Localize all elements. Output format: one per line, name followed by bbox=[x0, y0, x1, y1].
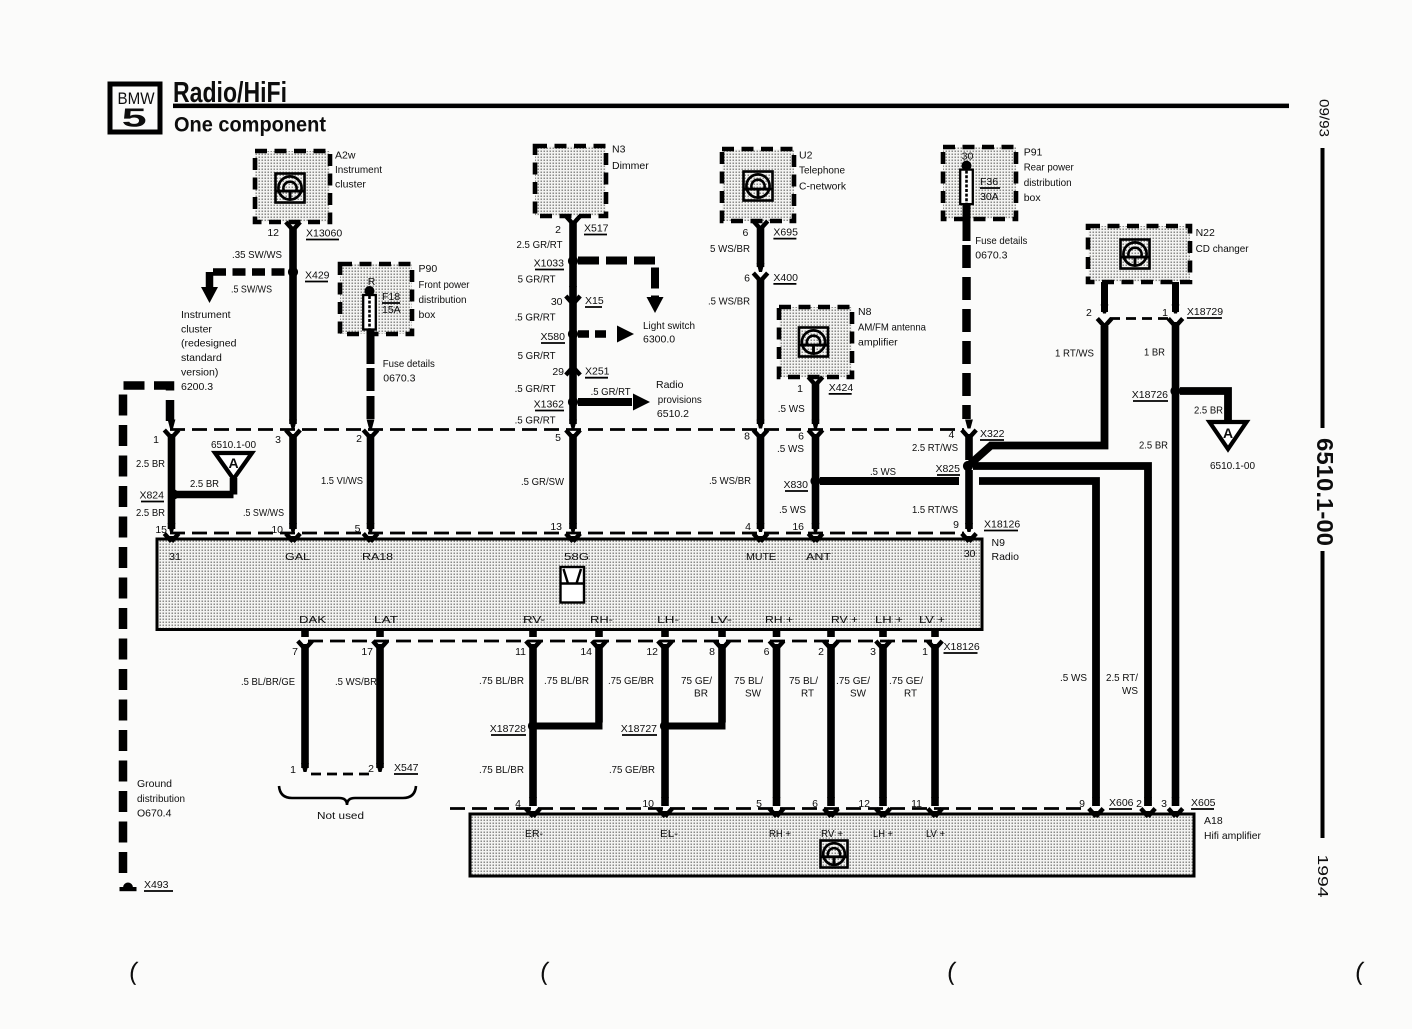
svg-text:X424: X424 bbox=[829, 382, 854, 394]
svg-text:12: 12 bbox=[267, 227, 279, 239]
svg-text:.5 BL/BR/GE: .5 BL/BR/GE bbox=[241, 676, 295, 688]
svg-text:6: 6 bbox=[744, 273, 750, 285]
svg-text:1 BR: 1 BR bbox=[1144, 347, 1165, 359]
svg-text:11: 11 bbox=[515, 646, 526, 658]
svg-text:5 GR/RT: 5 GR/RT bbox=[518, 350, 557, 362]
svg-text:X605: X605 bbox=[1191, 797, 1216, 809]
svg-text:0670.3: 0670.3 bbox=[975, 250, 1007, 262]
svg-text:.5 WS: .5 WS bbox=[779, 504, 806, 516]
svg-text:A: A bbox=[228, 455, 238, 471]
svg-text:SW: SW bbox=[745, 688, 761, 700]
svg-text:5 GR/RT: 5 GR/RT bbox=[518, 274, 557, 286]
svg-text:8: 8 bbox=[744, 430, 750, 442]
svg-text:75 GE/: 75 GE/ bbox=[681, 675, 712, 687]
svg-text:version): version) bbox=[181, 366, 218, 378]
svg-text:6: 6 bbox=[743, 227, 749, 239]
svg-text:Ground: Ground bbox=[137, 778, 172, 790]
svg-text:5: 5 bbox=[122, 103, 147, 132]
svg-text:.5 WS: .5 WS bbox=[777, 443, 804, 455]
svg-text:2.5 BR: 2.5 BR bbox=[190, 478, 219, 490]
svg-text:X18727: X18727 bbox=[621, 723, 657, 735]
svg-text:12: 12 bbox=[646, 646, 658, 658]
svg-text:N8: N8 bbox=[858, 306, 872, 318]
svg-text:2.5 BR: 2.5 BR bbox=[136, 458, 165, 470]
svg-text:P91: P91 bbox=[1024, 147, 1043, 159]
svg-text:cluster: cluster bbox=[181, 323, 212, 335]
svg-text:.35 SW/WS: .35 SW/WS bbox=[232, 249, 282, 261]
svg-text:X1033: X1033 bbox=[534, 258, 565, 270]
svg-text:CD changer: CD changer bbox=[1196, 243, 1249, 255]
svg-text:9: 9 bbox=[953, 519, 959, 531]
svg-text:.5 WS: .5 WS bbox=[870, 466, 896, 478]
svg-text:16: 16 bbox=[792, 521, 804, 533]
svg-text:13: 13 bbox=[550, 521, 562, 533]
svg-text:One component: One component bbox=[174, 113, 326, 137]
svg-text:X18728: X18728 bbox=[490, 723, 526, 735]
svg-text:10: 10 bbox=[642, 798, 654, 810]
svg-text:LV-: LV- bbox=[710, 614, 733, 626]
svg-text:Front power: Front power bbox=[419, 279, 470, 291]
svg-text:Fuse details: Fuse details bbox=[975, 235, 1027, 247]
svg-text:.75 GE/BR: .75 GE/BR bbox=[608, 675, 654, 687]
svg-text:.5 WS/BR: .5 WS/BR bbox=[709, 475, 751, 487]
svg-text:1 RT/WS: 1 RT/WS bbox=[1055, 348, 1094, 360]
svg-text:75 BL/: 75 BL/ bbox=[789, 675, 818, 687]
svg-text:X429: X429 bbox=[305, 270, 330, 282]
svg-text:6510.1-00: 6510.1-00 bbox=[1312, 438, 1338, 546]
svg-text:amplifier: amplifier bbox=[858, 337, 898, 349]
svg-text:AM/FM antenna: AM/FM antenna bbox=[858, 322, 926, 334]
svg-text:.5 GR/RT: .5 GR/RT bbox=[591, 386, 632, 398]
svg-text:1994: 1994 bbox=[1314, 855, 1331, 898]
svg-text:2: 2 bbox=[1086, 307, 1092, 319]
svg-text:(redesigned: (redesigned bbox=[181, 338, 237, 350]
svg-text:A: A bbox=[1223, 425, 1233, 441]
svg-text:X251: X251 bbox=[585, 366, 610, 378]
svg-text:8: 8 bbox=[709, 646, 715, 658]
svg-text:LH +: LH + bbox=[875, 614, 903, 626]
svg-text:X18729: X18729 bbox=[1187, 306, 1223, 318]
svg-text:standard: standard bbox=[181, 352, 222, 364]
svg-text:12: 12 bbox=[858, 798, 870, 810]
svg-text:.75 BL/BR: .75 BL/BR bbox=[479, 764, 524, 776]
svg-text:31: 31 bbox=[169, 551, 181, 563]
svg-text:15A: 15A bbox=[382, 304, 401, 316]
svg-text:Fuse details: Fuse details bbox=[383, 358, 435, 370]
svg-text:RT: RT bbox=[801, 688, 815, 700]
svg-text:5: 5 bbox=[355, 523, 361, 535]
svg-text:distribution: distribution bbox=[137, 793, 185, 805]
svg-text:30: 30 bbox=[962, 151, 974, 163]
svg-text:4: 4 bbox=[745, 521, 751, 533]
svg-text:X322: X322 bbox=[980, 428, 1005, 440]
svg-text:EL-: EL- bbox=[660, 828, 679, 840]
svg-text:distribution: distribution bbox=[419, 294, 467, 306]
svg-text:.5 SW/WS: .5 SW/WS bbox=[231, 284, 272, 296]
svg-text:.75 GE/: .75 GE/ bbox=[836, 675, 870, 687]
svg-text:RV +: RV + bbox=[831, 614, 858, 626]
svg-text:.5 GR/RT: .5 GR/RT bbox=[515, 415, 557, 427]
svg-text:2.5 BR: 2.5 BR bbox=[1139, 440, 1168, 452]
svg-text:2: 2 bbox=[368, 763, 374, 775]
svg-text:.75 GE/BR: .75 GE/BR bbox=[609, 764, 655, 776]
svg-text:2.5 GR/RT: 2.5 GR/RT bbox=[517, 239, 564, 251]
svg-text:2: 2 bbox=[356, 433, 362, 445]
svg-text:2: 2 bbox=[555, 224, 561, 236]
svg-text:P90: P90 bbox=[419, 263, 438, 275]
svg-text:A18: A18 bbox=[1204, 815, 1223, 827]
svg-text:X825: X825 bbox=[935, 463, 960, 475]
svg-text:5 WS/BR: 5 WS/BR bbox=[710, 243, 750, 255]
svg-text:1.5 VI/WS: 1.5 VI/WS bbox=[321, 475, 363, 487]
svg-text:X493: X493 bbox=[144, 879, 169, 891]
svg-text:Radio: Radio bbox=[992, 551, 1020, 563]
svg-text:LH +: LH + bbox=[873, 828, 893, 840]
svg-text:2: 2 bbox=[818, 646, 824, 658]
svg-text:3: 3 bbox=[870, 646, 876, 658]
svg-text:.5 SW/WS: .5 SW/WS bbox=[243, 507, 284, 519]
svg-text:Telephone: Telephone bbox=[799, 165, 845, 177]
svg-text:X547: X547 bbox=[394, 762, 419, 774]
svg-text:.75 GE/: .75 GE/ bbox=[889, 675, 923, 687]
svg-text:30: 30 bbox=[551, 296, 563, 308]
svg-text:Rear power: Rear power bbox=[1024, 162, 1074, 174]
svg-text:11: 11 bbox=[911, 798, 922, 810]
svg-text:.5 WS/BR: .5 WS/BR bbox=[708, 295, 750, 307]
svg-text:09/93: 09/93 bbox=[1317, 99, 1332, 137]
svg-text:0670.3: 0670.3 bbox=[383, 373, 415, 385]
svg-text:58G: 58G bbox=[564, 551, 589, 563]
svg-text:WS: WS bbox=[1122, 685, 1138, 697]
svg-text:box: box bbox=[419, 309, 437, 321]
svg-text:4: 4 bbox=[515, 798, 521, 810]
svg-text:DAK: DAK bbox=[299, 614, 326, 626]
svg-text:A2w: A2w bbox=[335, 150, 356, 162]
svg-text:cluster: cluster bbox=[335, 179, 366, 191]
svg-text:4: 4 bbox=[949, 429, 955, 441]
svg-text:6: 6 bbox=[798, 430, 804, 442]
svg-text:X13060: X13060 bbox=[306, 228, 342, 240]
svg-text:6200.3: 6200.3 bbox=[181, 381, 213, 393]
svg-text:RH-: RH- bbox=[590, 614, 614, 626]
svg-text:1: 1 bbox=[1162, 307, 1168, 319]
svg-text:RV-: RV- bbox=[523, 614, 546, 626]
svg-text:.75 BL/BR: .75 BL/BR bbox=[544, 675, 589, 687]
svg-text:X400: X400 bbox=[773, 272, 798, 284]
svg-text:Light switch: Light switch bbox=[643, 320, 695, 332]
svg-text:Radio: Radio bbox=[656, 379, 684, 391]
svg-text:SW: SW bbox=[850, 688, 866, 700]
svg-text:17: 17 bbox=[361, 646, 373, 658]
svg-text:N3: N3 bbox=[612, 144, 626, 156]
svg-text:X15: X15 bbox=[585, 295, 604, 307]
svg-text:RT: RT bbox=[904, 688, 918, 700]
svg-text:3: 3 bbox=[275, 434, 281, 446]
svg-text:1.5 RT/WS: 1.5 RT/WS bbox=[912, 504, 958, 516]
svg-text:30: 30 bbox=[964, 548, 976, 560]
svg-text:X580: X580 bbox=[540, 331, 565, 343]
svg-text:X1362: X1362 bbox=[534, 399, 565, 411]
svg-text:BR: BR bbox=[694, 688, 708, 700]
svg-text:N9: N9 bbox=[992, 537, 1006, 549]
svg-text:box: box bbox=[1024, 192, 1042, 204]
svg-text:Instrument: Instrument bbox=[335, 164, 382, 176]
svg-text:provisions: provisions bbox=[658, 394, 702, 406]
svg-text:GAL: GAL bbox=[285, 551, 310, 563]
svg-text:1: 1 bbox=[922, 646, 928, 658]
svg-text:5: 5 bbox=[555, 432, 561, 444]
svg-text:LAT: LAT bbox=[374, 614, 399, 626]
svg-text:X824: X824 bbox=[139, 490, 164, 502]
svg-text:Dimmer: Dimmer bbox=[612, 160, 649, 172]
svg-text:6510.2: 6510.2 bbox=[657, 408, 689, 420]
svg-text:.5 GR/RT: .5 GR/RT bbox=[515, 312, 557, 324]
svg-text:2.5 BR: 2.5 BR bbox=[1194, 405, 1223, 417]
svg-text:X517: X517 bbox=[584, 223, 609, 235]
svg-text:F18: F18 bbox=[382, 291, 400, 303]
svg-text:6: 6 bbox=[812, 798, 818, 810]
svg-text:14: 14 bbox=[580, 646, 592, 658]
svg-text:.5 GR/SW: .5 GR/SW bbox=[521, 476, 564, 488]
svg-text:2: 2 bbox=[1136, 798, 1142, 810]
svg-text:10: 10 bbox=[271, 524, 283, 536]
svg-text:3: 3 bbox=[1161, 798, 1167, 810]
svg-text:U2: U2 bbox=[799, 150, 813, 162]
svg-text:9: 9 bbox=[1079, 798, 1085, 810]
svg-text:X695: X695 bbox=[773, 227, 798, 239]
svg-text:C-network: C-network bbox=[799, 180, 847, 192]
svg-text:distribution: distribution bbox=[1024, 177, 1072, 189]
svg-text:.5 WS: .5 WS bbox=[1060, 672, 1087, 684]
svg-text:Not used: Not used bbox=[317, 810, 364, 822]
svg-text:15: 15 bbox=[155, 524, 167, 536]
svg-text:RV +: RV + bbox=[821, 828, 843, 840]
svg-text:X830: X830 bbox=[783, 479, 808, 491]
svg-text:Hifi amplifier: Hifi amplifier bbox=[1204, 830, 1261, 842]
svg-text:2.5 RT/WS: 2.5 RT/WS bbox=[912, 442, 958, 454]
svg-text:29: 29 bbox=[552, 366, 564, 378]
svg-text:RH +: RH + bbox=[769, 828, 791, 840]
svg-text:Instrument: Instrument bbox=[181, 309, 231, 321]
svg-text:2.5 RT/: 2.5 RT/ bbox=[1106, 672, 1138, 684]
svg-text:RA18: RA18 bbox=[362, 551, 393, 563]
svg-text:6: 6 bbox=[764, 646, 770, 658]
svg-text:ANT: ANT bbox=[806, 551, 832, 563]
svg-text:X18126: X18126 bbox=[944, 641, 980, 653]
svg-text:.75 BL/BR: .75 BL/BR bbox=[479, 675, 524, 687]
svg-text:2.5 BR: 2.5 BR bbox=[136, 507, 165, 519]
svg-text:MUTE: MUTE bbox=[746, 551, 776, 563]
svg-text:30A: 30A bbox=[980, 191, 999, 203]
svg-text:LH-: LH- bbox=[657, 614, 680, 626]
svg-text:1: 1 bbox=[290, 764, 296, 776]
svg-text:F36: F36 bbox=[980, 176, 998, 188]
svg-text:O670.4: O670.4 bbox=[137, 808, 172, 820]
svg-text:ER-: ER- bbox=[525, 828, 543, 840]
svg-text:7: 7 bbox=[292, 646, 298, 658]
svg-text:.5 GR/RT: .5 GR/RT bbox=[515, 383, 557, 395]
svg-text:X18126: X18126 bbox=[984, 519, 1020, 531]
svg-text:RH +: RH + bbox=[765, 614, 793, 626]
svg-text:5: 5 bbox=[756, 798, 762, 810]
svg-text:X18726: X18726 bbox=[1132, 389, 1168, 401]
svg-text:.5 WS/BR: .5 WS/BR bbox=[335, 676, 377, 688]
svg-text:6510.1-00: 6510.1-00 bbox=[211, 439, 256, 451]
svg-text:X606: X606 bbox=[1109, 797, 1134, 809]
svg-text:.5 WS: .5 WS bbox=[778, 403, 805, 415]
svg-text:75 BL/: 75 BL/ bbox=[734, 675, 763, 687]
svg-text:6300.0: 6300.0 bbox=[643, 334, 675, 346]
svg-text:1: 1 bbox=[153, 434, 159, 446]
svg-text:6510.1-00: 6510.1-00 bbox=[1210, 460, 1255, 472]
svg-text:LV +: LV + bbox=[926, 828, 945, 840]
svg-text:LV +: LV + bbox=[919, 614, 945, 626]
svg-text:1: 1 bbox=[797, 383, 803, 395]
svg-text:N22: N22 bbox=[1196, 227, 1215, 239]
